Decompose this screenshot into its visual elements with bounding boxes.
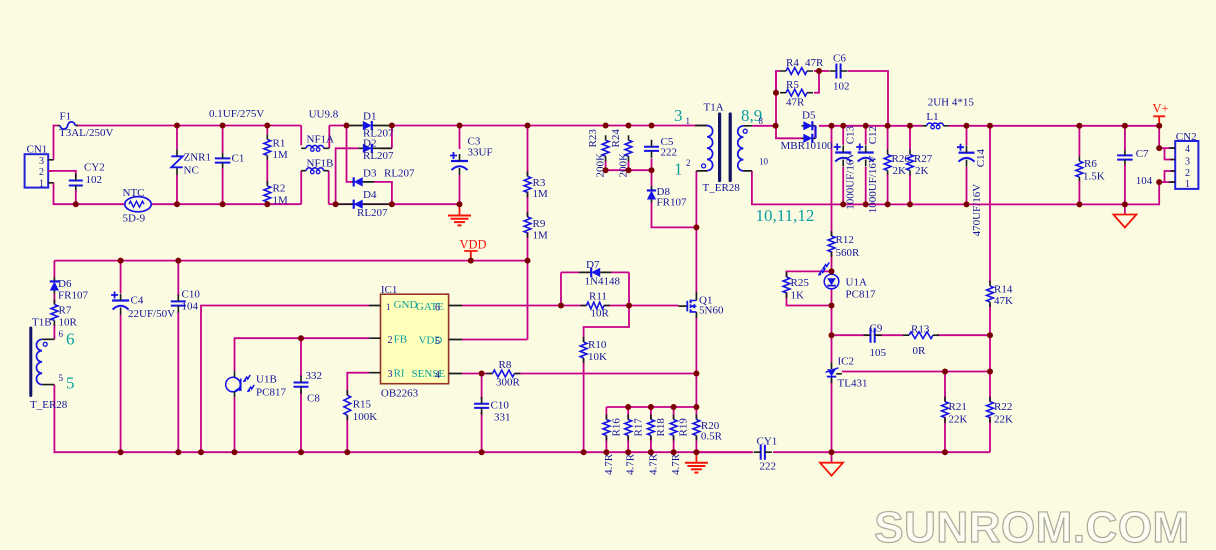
svg-text:R17: R17	[632, 418, 644, 437]
svg-text:U1B: U1B	[256, 374, 277, 386]
svg-text:200K: 200K	[595, 153, 607, 178]
svg-text:102: 102	[86, 174, 103, 186]
junction at 966.5,125.8	[964, 123, 970, 129]
junction at 696.4,407	[693, 404, 699, 410]
junction at 234.5,452.2	[232, 449, 238, 455]
svg-text:3: 3	[1185, 157, 1190, 168]
svg-text:FB: FB	[394, 334, 407, 346]
wire node AC2 vertical D2-anode / D4-cathode	[336, 148, 359, 204]
svg-text:3: 3	[674, 106, 683, 125]
junction at 222.6,125.5	[220, 123, 226, 129]
fuse F1	[58, 125, 79, 127]
capacitor C7	[1117, 155, 1133, 159]
wire R15 to ground rail	[346, 415, 348, 452]
svg-text:22K: 22K	[949, 414, 968, 426]
junction at 910,125.8	[907, 123, 913, 129]
svg-text:R25: R25	[791, 277, 810, 289]
svg-text:47R: 47R	[786, 97, 805, 109]
svg-text:1000UF/16V: 1000UF/16V	[845, 152, 857, 210]
junction at 831.5,271.4	[829, 268, 835, 274]
svg-text:2: 2	[686, 158, 691, 168]
wire output + rail after L1	[949, 125, 1160, 127]
resistor R10	[580, 342, 587, 358]
svg-text:PC817: PC817	[846, 289, 876, 301]
junction at 561,305.5	[558, 303, 564, 309]
wire gate wire to Q1	[629, 305, 679, 307]
svg-text:C10: C10	[182, 289, 201, 301]
resistor R3	[524, 176, 531, 192]
capacitor C1	[215, 158, 231, 162]
svg-text:C8: C8	[307, 393, 320, 405]
svg-text:R21: R21	[949, 401, 967, 413]
diode D5 bottom	[802, 137, 816, 139]
svg-text:0R: 0R	[913, 345, 927, 357]
svg-text:104: 104	[182, 301, 199, 313]
diode D8	[651, 186, 653, 203]
junction at 966.5,204.4	[964, 201, 970, 207]
svg-text:D1: D1	[363, 111, 376, 123]
wire D8 cathode down to Q1 drain node	[652, 203, 697, 228]
junction at 391.9,125.5	[389, 123, 395, 129]
svg-text:C6: C6	[833, 53, 846, 65]
svg-text:4.7R: 4.7R	[647, 453, 659, 475]
wire output + rail after D5	[819, 125, 922, 127]
svg-text:100K: 100K	[353, 411, 378, 423]
wire D1 cathode to D2 cathode	[391, 126, 393, 149]
junction at 1079.4,204.4	[1076, 201, 1082, 207]
svg-text:CN2: CN2	[1176, 131, 1197, 143]
inductor L1	[922, 125, 948, 127]
wire sense resistor top bus	[606, 406, 696, 408]
svg-text:222: 222	[661, 147, 678, 159]
wire IC1 pin3 RI to R15	[347, 373, 369, 396]
resistor R25	[783, 277, 790, 293]
svg-text:IC2: IC2	[838, 356, 855, 368]
svg-text:33UF: 33UF	[468, 147, 493, 159]
svg-text:VDD: VDD	[460, 238, 487, 252]
wire R21 from ref wire down	[944, 372, 946, 402]
wire R10 to ground rail	[583, 358, 585, 452]
svg-text:1000UF/16V: 1000UF/16V	[867, 155, 879, 213]
junction at 1159.2,182.1	[1156, 179, 1162, 185]
junction at 605.6,125.5	[603, 123, 609, 129]
svg-text:10R: 10R	[591, 308, 610, 320]
svg-text:CY2: CY2	[84, 162, 105, 174]
junction at 990,371.5	[987, 369, 993, 375]
junction at 481.6,452.2	[479, 449, 485, 455]
svg-text:4: 4	[435, 370, 440, 381]
wire rectified + rail from bridge to transformer pin1	[392, 125, 707, 127]
junction at 1159.2,148.1	[1156, 145, 1162, 151]
svg-text:NTC: NTC	[123, 187, 145, 199]
resistor R4	[786, 68, 807, 75]
resistor R2	[264, 186, 271, 202]
svg-text:CN1: CN1	[27, 144, 48, 156]
svg-text:D2: D2	[363, 138, 376, 150]
svg-text:MBR10100: MBR10100	[781, 140, 833, 152]
svg-text:R11: R11	[589, 291, 607, 303]
wire IC1 pin2 FB to optocoupler U1B	[235, 338, 370, 371]
junction at 346.5,125.5	[344, 123, 350, 129]
svg-text:RL207: RL207	[357, 207, 388, 219]
diode D7	[561, 271, 579, 273]
junction at 990,125.8	[987, 123, 993, 129]
junction at 945,452.2	[942, 449, 948, 455]
svg-text:NC: NC	[184, 165, 199, 177]
svg-text:1: 1	[1185, 179, 1190, 190]
svg-text:R1: R1	[273, 138, 286, 150]
transformer T1A primary winding	[695, 126, 707, 171]
resistor R26	[884, 155, 891, 171]
svg-text:2K: 2K	[915, 165, 929, 177]
svg-text:4: 4	[1185, 144, 1190, 155]
junction at 628.5,170.2	[626, 167, 632, 173]
wire U1B emitter to ground rail	[234, 397, 236, 452]
junction at 650.9,452.2	[648, 449, 654, 455]
svg-text:V+: V+	[1153, 102, 1169, 116]
capacitor CY2	[69, 181, 83, 186]
svg-text:PC817: PC817	[256, 387, 286, 399]
capacitor C3 bulk electrolytic	[459, 126, 461, 150]
svg-text:R10: R10	[588, 339, 607, 351]
wire snubber R4 right to C6	[814, 70, 829, 72]
junction at 651.5,125.5	[649, 123, 655, 129]
wire CN2 pin3 feed	[1165, 148, 1176, 159]
svg-text:6: 6	[59, 329, 64, 339]
svg-text:10R: 10R	[59, 317, 78, 329]
junction at 459.5,204.2	[457, 201, 463, 207]
resistor R8	[493, 370, 515, 377]
svg-text:R14: R14	[994, 284, 1013, 296]
svg-text:1: 1	[39, 179, 44, 190]
wire secondary pin8 to D5	[752, 125, 776, 127]
wire VDD rail down to D6	[53, 261, 55, 277]
junction at 347.3,452.2	[344, 449, 350, 455]
svg-text:R5: R5	[786, 79, 799, 91]
svg-text:1M: 1M	[273, 149, 289, 161]
junction at 945,371.5	[942, 369, 948, 375]
junction at 865.7,125.8	[863, 123, 869, 129]
junction at 335.6,204.2	[333, 201, 339, 207]
svg-text:1M: 1M	[533, 230, 549, 242]
wire gate node to D7 bypass left	[560, 272, 562, 305]
svg-text:5: 5	[59, 373, 64, 383]
resistor R19	[670, 420, 677, 436]
svg-text:D3: D3	[363, 168, 377, 180]
resistor R7	[51, 305, 58, 321]
junction at 1124.9,204.4	[1122, 201, 1128, 207]
connector CN1	[25, 154, 49, 187]
svg-text:R23: R23	[587, 129, 599, 148]
svg-text:R4: R4	[786, 57, 799, 69]
wire D5 lower anode leg	[776, 126, 802, 139]
wire node AC1 vertical to D3	[347, 126, 353, 182]
transformer T1B aux winding	[42, 339, 54, 384]
capacitor C9	[871, 328, 875, 343]
junction at 696.4,373.5	[693, 371, 699, 377]
svg-text:200K: 200K	[618, 153, 630, 178]
wire startup divider R3 R9 vertical	[527, 126, 529, 177]
capacitor C14	[966, 126, 968, 146]
svg-text:47R: 47R	[805, 57, 824, 69]
junction at 887.6,204.4	[885, 201, 891, 207]
diode D1	[347, 125, 392, 127]
junction at 831.5,125.8	[829, 123, 835, 129]
wire C10 branch	[177, 261, 179, 297]
resistor R24	[625, 140, 632, 156]
capacitor C5	[644, 147, 659, 151]
svg-text:560R: 560R	[836, 247, 861, 259]
svg-text:C14: C14	[975, 148, 987, 167]
junction at 470.8,260.6	[468, 258, 474, 264]
svg-text:UU9.8: UU9.8	[309, 109, 339, 121]
svg-text:D7: D7	[586, 259, 600, 271]
svg-text:GND: GND	[394, 299, 418, 311]
svg-text:RL207: RL207	[384, 168, 415, 180]
svg-text:C4: C4	[131, 295, 144, 307]
svg-text:8: 8	[759, 116, 764, 126]
junction at 990,335.2	[987, 332, 993, 338]
svg-text:5N60: 5N60	[699, 305, 724, 317]
wire AC rail after choke NF1A to bridge node	[328, 126, 330, 149]
svg-text:R9: R9	[533, 218, 546, 230]
svg-text:22UF/50V: 22UF/50V	[128, 308, 175, 320]
junction at 776,92.7	[773, 90, 779, 96]
wire IC1 pin1 GND to ground rail	[201, 306, 369, 453]
junction at 651.5,170.2	[649, 167, 655, 173]
svg-text:10K: 10K	[588, 351, 607, 363]
wire AC line top rail from CN1 to choke	[54, 126, 58, 160]
wire R25 parallel loop	[787, 271, 832, 277]
junction at 775.6,125.8	[773, 123, 779, 129]
svg-text:NF1A: NF1A	[307, 134, 335, 146]
capacitor C4	[111, 292, 118, 299]
wire D5 cathodes join	[814, 126, 816, 139]
junction at 1159.2,125.8	[1156, 123, 1162, 129]
junction at 120.6,260.6	[118, 258, 124, 264]
wire IC1 pin4 SENSE to R8	[462, 373, 493, 375]
resistor R17	[625, 420, 632, 436]
svg-text:6: 6	[435, 303, 440, 314]
junction at 629,305.5	[626, 303, 632, 309]
capacitor C6	[836, 64, 840, 79]
wire VDD rail	[54, 260, 527, 262]
junction at 831.5,335.2	[829, 332, 835, 338]
junction at 178.3,452.2	[175, 449, 181, 455]
svg-text:332: 332	[306, 370, 323, 382]
svg-text:22K: 22K	[994, 414, 1013, 426]
svg-text:5D-9: 5D-9	[123, 213, 146, 225]
svg-text:6: 6	[66, 330, 75, 349]
ground earth below C3	[459, 204, 461, 214]
junction at 628.2,407	[625, 404, 631, 410]
svg-text:4.7R: 4.7R	[603, 453, 615, 475]
junction at 222.6,204.2	[220, 201, 226, 207]
inductor NF1A	[301, 147, 329, 149]
diode D2	[358, 147, 392, 149]
wire IC1 pin6 GATE to R11 network	[462, 305, 561, 307]
wire CN2 pin1 feed	[1159, 181, 1175, 183]
ground triangle secondary	[831, 452, 833, 463]
wire snubber R4 R5 left leg	[776, 71, 780, 126]
svg-text:SUNROM.COM: SUNROM.COM	[874, 503, 1189, 550]
svg-text:FR107: FR107	[657, 197, 687, 209]
wire C8 branch on FB net	[300, 338, 302, 377]
resistor R12	[828, 236, 835, 252]
wire CN1 pin2 to CY2	[48, 171, 76, 177]
resistor R13	[909, 332, 933, 339]
capacitor C12	[865, 126, 867, 145]
primary polarity dot	[702, 164, 706, 168]
optocoupler U1A LED	[824, 274, 839, 289]
junction at 120.6,452.2	[118, 449, 124, 455]
svg-text:R12: R12	[836, 234, 854, 246]
svg-text:U1A: U1A	[846, 277, 867, 289]
svg-text:R7: R7	[59, 305, 72, 317]
wire secondary ground bottom rail right section	[773, 451, 990, 453]
resistor R27	[907, 155, 914, 171]
svg-text:10,11,12: 10,11,12	[756, 206, 815, 225]
svg-text:2: 2	[388, 335, 393, 346]
svg-text:3: 3	[39, 156, 44, 167]
resistor R1	[264, 139, 271, 155]
wire transformer primary pin2 down to Q1 drain	[695, 171, 697, 292]
svg-text:R2: R2	[273, 183, 286, 195]
junction at 605.6,170.2	[603, 167, 609, 173]
capacitor C10 vdd	[171, 301, 186, 305]
svg-text:RI: RI	[394, 368, 405, 380]
junction at 831.5,305.5	[829, 303, 835, 309]
svg-text:C13: C13	[845, 125, 857, 144]
T1B core bar	[29, 328, 32, 396]
svg-text:R24: R24	[610, 129, 622, 148]
svg-text:0.5R: 0.5R	[701, 431, 723, 443]
wire output sense vertical R14 R22	[989, 126, 991, 283]
svg-text:OB2263: OB2263	[381, 388, 419, 400]
wire TL431 ref to divider	[842, 371, 990, 373]
svg-text:D4: D4	[363, 189, 377, 201]
svg-text:1: 1	[686, 116, 691, 126]
junction at 527.5,125.5	[525, 123, 531, 129]
junction at 831.5,452.2	[829, 449, 835, 455]
shunt regulator IC2 TL431	[831, 362, 833, 383]
svg-text:105: 105	[870, 347, 887, 359]
svg-text:5: 5	[66, 374, 75, 393]
transistor Q1 MOSFET	[695, 292, 697, 318]
wire R5 right up to R4 node	[814, 71, 819, 93]
svg-text:ZNR1: ZNR1	[184, 152, 212, 164]
resistor R11	[587, 302, 605, 309]
svg-text:R8: R8	[499, 359, 512, 371]
svg-text:R13: R13	[911, 324, 930, 336]
junction at 843.2,204.4	[840, 201, 846, 207]
svg-text:470UF/16V: 470UF/16V	[971, 184, 983, 237]
resistor R18	[648, 420, 655, 436]
junction at 910,204.4	[907, 201, 913, 207]
junction at 459.5,125.5	[457, 123, 463, 129]
svg-text:5: 5	[435, 336, 440, 347]
svg-text:IC1: IC1	[381, 284, 398, 296]
svg-text:GATE: GATE	[416, 301, 444, 313]
wire sense resistor bottoms	[605, 436, 607, 453]
wire AC neutral bottom rail from CN1 to choke NF1B	[54, 183, 126, 204]
ground triangle below C7	[1124, 204, 1126, 214]
svg-text:NF1B: NF1B	[307, 158, 334, 170]
varistor ZNR1	[176, 149, 178, 175]
svg-text:SENSE: SENSE	[412, 368, 446, 380]
junction at 177,204.2	[174, 201, 180, 207]
wire D7 bypass right	[628, 272, 630, 305]
inductor NF1B	[301, 170, 329, 172]
ground earth below R20	[695, 452, 697, 463]
svg-text:4.7R: 4.7R	[670, 453, 682, 475]
svg-text:R27: R27	[914, 153, 933, 165]
svg-text:104: 104	[1136, 175, 1153, 187]
svg-text:C7: C7	[1136, 148, 1149, 160]
svg-text:1N4148: 1N4148	[585, 276, 621, 288]
resistor R6	[1076, 161, 1083, 177]
wire R7 to T1B winding	[53, 325, 55, 340]
svg-text:222: 222	[760, 461, 777, 473]
diode D4	[336, 203, 392, 205]
svg-text:1M: 1M	[533, 188, 549, 200]
svg-text:T3AL/250V: T3AL/250V	[59, 127, 113, 139]
junction at 887.6,125.8	[885, 123, 891, 129]
svg-text:10: 10	[759, 157, 769, 167]
svg-text:C12: C12	[867, 126, 879, 144]
svg-text:1: 1	[386, 302, 391, 312]
wire CN2 pin2 feed	[1165, 171, 1176, 182]
junction at 673.6,452.2	[671, 449, 677, 455]
wire R8 to Q1 source node	[515, 373, 697, 375]
T1B polarity dot	[43, 342, 47, 346]
junction at 391.9,204.2	[389, 201, 395, 207]
wire D3 anode to bottom rail	[374, 182, 392, 204]
svg-text:47K: 47K	[994, 295, 1013, 307]
capacitor C13	[842, 126, 844, 145]
transformer T1A secondary winding	[743, 126, 752, 171]
wire primary-side ground bottom rail	[121, 451, 753, 453]
junction at 267.3,204.2	[264, 201, 270, 207]
junction at 201,452.2	[198, 449, 204, 455]
resistor R15	[344, 395, 351, 415]
svg-text:C10: C10	[491, 400, 510, 412]
wire TL431 anode down to secondary ground rail	[831, 380, 833, 453]
junction at 650.9,407	[648, 404, 654, 410]
capacitor CY1	[761, 445, 765, 460]
svg-text:C1: C1	[232, 153, 245, 165]
svg-text:1.5K: 1.5K	[1083, 171, 1105, 183]
wire CY1 left lead	[696, 451, 752, 453]
thermistor NTC	[125, 197, 151, 212]
wire Q1 source down to sense resistors	[695, 318, 697, 374]
svg-text:T_ER28: T_ER28	[703, 182, 741, 194]
svg-text:1K: 1K	[791, 290, 805, 302]
svg-text:F1: F1	[60, 111, 72, 123]
svg-text:2: 2	[1185, 168, 1190, 179]
capacitor C10 sense filter 331	[474, 404, 489, 408]
resistor R21	[942, 402, 949, 418]
resistor R14	[987, 286, 994, 302]
junction at 628.5,125.5	[626, 123, 632, 129]
wire secondary ground rail	[843, 203, 1125, 205]
connector CN2	[1175, 141, 1198, 189]
junction at 301,338.2	[298, 335, 304, 341]
svg-text:3: 3	[388, 369, 393, 380]
svg-text:2UH 4*15: 2UH 4*15	[928, 97, 975, 109]
wire C9 R13 compensation branch	[832, 334, 869, 336]
wire R12 to U1A LED	[831, 251, 833, 275]
